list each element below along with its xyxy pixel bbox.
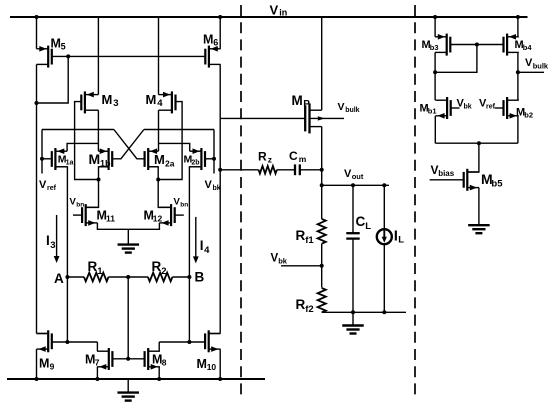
wire R2 to node B — [172, 276, 189, 278]
junction dot A-bus at gate line — [65, 340, 69, 344]
wire M10 source to rail — [219, 349, 221, 379]
current source IL — [377, 229, 392, 244]
wire MP source to rail — [321, 17, 323, 110]
wire M1a gate lead — [42, 158, 52, 160]
wire bias center rail — [435, 142, 518, 144]
junction dot Cm at MP drain — [320, 168, 324, 172]
ground symbol bottom center — [117, 379, 139, 401]
junction dot Vout corner — [320, 183, 324, 187]
transistor Mb2 — [504, 97, 519, 119]
wire M11 source to ground — [97, 223, 128, 229]
wire Mb2 source down — [517, 116, 519, 143]
transistor M2a — [145, 148, 159, 170]
wire Mb3 source to rail — [434, 17, 436, 37]
wire M11 gate lead — [73, 214, 82, 216]
junction dot node A — [65, 275, 69, 279]
label MP — [292, 93, 311, 110]
wire M1a drain down A-bus — [55, 167, 67, 342]
svg-text:7: 7 — [95, 358, 100, 368]
transistor M10 — [205, 330, 220, 352]
transistor MP — [305, 103, 322, 133]
wire M6 drain down bus — [219, 64, 221, 333]
wire Mb3 drain down — [434, 52, 436, 100]
junction dot M7 source rail — [95, 377, 99, 381]
wire cross-couple right horizontal — [144, 129, 214, 131]
label Rf1 — [296, 228, 315, 246]
resistor R1 — [84, 273, 109, 282]
transistor M9 — [37, 330, 52, 352]
wire M4 source to rail — [158, 17, 160, 95]
svg-text:ref: ref — [486, 104, 496, 111]
junction dot Vref gate — [40, 157, 44, 161]
svg-text:R: R — [152, 259, 162, 274]
label Rz — [258, 150, 272, 165]
svg-text:b2: b2 — [524, 111, 533, 120]
label Vref — [39, 179, 57, 192]
junction dot IL top — [382, 183, 386, 187]
svg-text:out: out — [352, 172, 364, 181]
wire M7 drain up — [96, 342, 98, 351]
wire M7-M8 gate line — [112, 358, 144, 360]
svg-text:L: L — [365, 221, 371, 232]
junction dot Mb3 at rail — [433, 15, 437, 19]
capacitor CL — [346, 233, 359, 238]
label M2a — [154, 152, 175, 168]
svg-text:bn: bn — [180, 202, 188, 209]
label CL — [356, 214, 372, 232]
transistor M5 — [37, 46, 52, 68]
junction dot IL bottom — [382, 310, 386, 314]
label Cm — [289, 149, 307, 164]
label Mb2 — [516, 107, 533, 120]
svg-text:f2: f2 — [305, 304, 313, 315]
wire M7 source to rail — [96, 367, 98, 379]
bulk lead of MP with arrow — [310, 116, 345, 120]
label Vbias — [431, 163, 455, 178]
junction dot CL bottom — [351, 310, 355, 314]
wire M9 drain lead — [37, 333, 49, 335]
label M10 — [197, 357, 217, 372]
svg-text:V: V — [39, 179, 47, 191]
wire M2a drain down — [148, 167, 171, 208]
label node A — [54, 271, 64, 286]
svg-text:I: I — [46, 233, 50, 248]
dashed boundary line right — [414, 5, 416, 397]
transistor M2b — [190, 148, 205, 170]
junction dot Vbk gate — [212, 157, 216, 161]
label Vout — [344, 168, 364, 181]
power rail Vin — [10, 16, 528, 18]
svg-text:8: 8 — [162, 358, 167, 368]
wire MP drain down — [321, 127, 323, 186]
wire M1a source up — [67, 143, 98, 151]
svg-text:M: M — [146, 92, 157, 107]
wire M12 source to ground — [128, 223, 159, 229]
svg-text:C: C — [356, 214, 366, 229]
wire M2b gate lead — [205, 158, 214, 160]
wire Rf1 to Rf2 — [321, 244, 323, 288]
label Vbn right — [174, 197, 189, 209]
label Mb3 — [422, 39, 439, 52]
transistor M3 — [81, 91, 98, 113]
wire Mb3 diode connection — [435, 45, 477, 73]
label Mb4 — [515, 39, 533, 52]
svg-text:C: C — [289, 149, 298, 163]
svg-text:M: M — [39, 357, 49, 371]
wire M1b drain down — [86, 167, 109, 208]
wire Mb1 gate lead — [451, 107, 460, 109]
junction dot right drain rail — [156, 178, 160, 182]
wire Mb4 source to rail — [517, 17, 519, 37]
svg-text:b4: b4 — [523, 43, 533, 52]
svg-text:M: M — [102, 92, 113, 107]
wire MP gate from M6 drain — [220, 117, 306, 119]
transistor M7 — [97, 348, 112, 370]
wire M3 gate down — [75, 102, 99, 180]
ground tail pair — [118, 229, 140, 252]
svg-text:bulk: bulk — [533, 62, 549, 71]
wire M5 source to rail — [36, 17, 38, 49]
wire center tap down — [127, 277, 129, 359]
label Vbk feedback — [271, 253, 288, 266]
wire Mb5 drain up — [467, 143, 479, 172]
svg-text:M: M — [89, 151, 101, 167]
wire M3 source to rail — [97, 17, 99, 95]
svg-text:4: 4 — [157, 98, 163, 109]
svg-text:b5: b5 — [491, 179, 503, 190]
junction dot B-bus at gate line — [187, 340, 191, 344]
wire M10 drain lead — [209, 333, 221, 335]
wire Mb2 gate lead — [495, 107, 504, 109]
wire Mb4 drain down — [517, 52, 519, 100]
svg-text:3: 3 — [50, 240, 55, 251]
wire cross-couple left horizontal — [42, 129, 114, 131]
wire M2b drain down B-bus — [189, 167, 201, 342]
svg-text:b1: b1 — [428, 107, 437, 116]
junction dot Rz at M6 bus — [218, 168, 222, 172]
svg-text:bulk: bulk — [345, 107, 359, 114]
transistor M6 — [205, 46, 220, 68]
dashed boundary line left — [240, 5, 242, 397]
junction dot M8 source rail — [157, 377, 161, 381]
wire Vout node line — [322, 184, 389, 186]
svg-text:2a: 2a — [165, 158, 175, 168]
wire Mb1 source down — [434, 116, 436, 143]
wire node A to R1 — [67, 276, 84, 278]
wire cross-couple diagonal left-to-right — [114, 130, 145, 159]
junction dot left drain rail — [97, 178, 101, 182]
svg-text:V: V — [205, 179, 213, 191]
label R2 — [152, 259, 167, 277]
capacitor Cm — [295, 164, 300, 175]
svg-text:ref: ref — [47, 185, 57, 192]
svg-text:M: M — [203, 33, 213, 47]
wire M8 source to rail — [158, 367, 160, 379]
resistor Rf1 — [318, 219, 326, 244]
label I3 — [46, 233, 56, 251]
transistor M1b — [98, 148, 112, 170]
ground symbol load — [342, 312, 364, 333]
svg-text:R: R — [258, 150, 267, 164]
label Mb1 — [420, 103, 437, 116]
svg-text:f1: f1 — [305, 235, 314, 246]
wire M5 drain down bus — [36, 64, 38, 333]
resistor Rz — [259, 166, 277, 174]
label M12 — [144, 209, 163, 224]
label M1b — [89, 151, 112, 168]
label Vbulk right — [525, 57, 549, 71]
transistor M1a — [52, 148, 67, 170]
label IL — [394, 228, 404, 246]
wire CL bottom — [352, 239, 354, 313]
label Vbulk at MP — [338, 101, 360, 114]
svg-text:bk: bk — [213, 185, 221, 192]
svg-text:in: in — [279, 8, 287, 18]
label M9 — [39, 357, 55, 372]
svg-text:6: 6 — [213, 38, 218, 48]
junction dot center gate line — [126, 357, 130, 361]
junction dot node B — [187, 275, 191, 279]
junction dot M5 drain bus — [35, 101, 39, 105]
junction dot M10 source rail — [218, 377, 222, 381]
wire M12 gate lead — [175, 214, 184, 216]
label M2b — [184, 154, 200, 167]
svg-text:5: 5 — [61, 42, 66, 52]
svg-text:M: M — [292, 93, 303, 108]
label M6 — [203, 33, 218, 48]
svg-text:bn: bn — [76, 202, 84, 209]
wire Cm to MP drain — [300, 169, 322, 171]
label M7 — [85, 353, 100, 368]
label Mb5 — [481, 171, 503, 190]
wire CL top — [352, 185, 354, 233]
label Vin — [270, 3, 288, 18]
junction dot Mb3 diode tap — [475, 43, 479, 47]
svg-text:3: 3 — [113, 98, 118, 109]
wire M4 gate down — [158, 102, 182, 180]
junction dot gate line diode tap — [66, 54, 70, 58]
wire Rz to Cm — [277, 169, 295, 171]
label Vref right block — [479, 98, 496, 111]
label M5 — [51, 37, 66, 52]
wire IL top — [383, 185, 385, 229]
label M3 — [102, 92, 119, 109]
label M8 — [152, 353, 167, 368]
ground rail bottom — [7, 378, 265, 380]
svg-text:bk: bk — [464, 104, 472, 111]
wire Rz input — [220, 169, 258, 171]
wire Mb5 source to ground — [478, 188, 480, 226]
junction dot Mb4 at rail — [516, 15, 520, 19]
label M1a — [58, 154, 74, 167]
svg-text:V: V — [270, 3, 279, 18]
svg-text:b3: b3 — [430, 43, 439, 52]
svg-text:B: B — [195, 270, 205, 285]
svg-text:z: z — [268, 155, 272, 165]
wire Vbk feedback stub — [281, 265, 322, 267]
label Rf2 — [296, 297, 314, 315]
wire Vbulk output line — [518, 71, 544, 73]
transistor M12 — [159, 204, 174, 226]
junction dot center tap — [126, 275, 130, 279]
wire gate line M5-M6 — [52, 55, 205, 57]
ground symbol bias — [468, 225, 490, 233]
label Vbk left block — [205, 179, 221, 192]
junction dot Mb3 drain node — [433, 70, 437, 74]
junction dot bias center — [477, 141, 481, 145]
current arrow I3 — [54, 215, 60, 263]
svg-text:1a: 1a — [66, 159, 74, 166]
junction dot M6 source at rail — [218, 15, 222, 19]
resistor Rf2 — [318, 288, 326, 312]
wire load bottom line — [322, 311, 406, 313]
transistor Mb5 — [464, 169, 479, 191]
wire IL bottom — [383, 245, 385, 313]
resistor R2 — [148, 273, 173, 282]
svg-text:M: M — [51, 37, 61, 51]
junction dot Vbk tap — [320, 264, 324, 268]
wire M8-M10 gate line — [159, 341, 205, 343]
transistor M11 — [82, 204, 97, 226]
svg-text:R: R — [296, 228, 306, 243]
svg-text:4: 4 — [204, 245, 210, 256]
svg-text:1: 1 — [97, 266, 103, 277]
svg-text:bias: bias — [438, 169, 455, 178]
wire cross-couple diagonal right-to-left — [112, 130, 144, 159]
wire R1 to center — [109, 276, 148, 278]
svg-text:12: 12 — [153, 214, 163, 224]
svg-text:9: 9 — [50, 362, 55, 372]
label R1 — [88, 259, 104, 277]
node Vbk stub — [213, 130, 215, 174]
wire M9 source to rail — [36, 349, 38, 379]
label Vbn left — [70, 197, 85, 209]
svg-text:A: A — [54, 271, 64, 286]
wire Mb5 gate lead — [430, 179, 464, 181]
junction dot M5 source at rail — [35, 15, 39, 19]
svg-text:V: V — [338, 101, 345, 113]
node Vref stub — [41, 130, 43, 174]
label M11 — [97, 209, 116, 224]
svg-text:11: 11 — [106, 214, 115, 224]
svg-text:2b: 2b — [191, 159, 199, 166]
label I4 — [200, 238, 210, 256]
wire Mb3-Mb4 gate line — [450, 44, 503, 46]
svg-text:M: M — [154, 152, 165, 167]
junction dot Vbulk node — [516, 70, 520, 74]
transistor Mb1 — [435, 97, 450, 119]
transistor M8 — [145, 348, 160, 370]
transistor Mb3 — [435, 34, 450, 56]
transistor Mb4 — [504, 34, 519, 56]
svg-text:10: 10 — [207, 362, 217, 372]
svg-text:M: M — [197, 357, 207, 371]
svg-text:R: R — [88, 259, 98, 274]
wire M3 drain down — [97, 110, 99, 151]
svg-text:bk: bk — [278, 257, 288, 266]
svg-text:L: L — [398, 234, 404, 245]
wire Rf1 top — [321, 185, 323, 219]
svg-text:2: 2 — [161, 266, 166, 277]
wire M4 drain down — [158, 110, 160, 151]
label node B — [195, 270, 205, 285]
label Vbk right block — [457, 98, 472, 111]
wire M2b source up — [159, 143, 190, 151]
wire M5 diode connection — [37, 56, 69, 103]
wire M8 drain up — [158, 342, 160, 351]
wire M9-M7 gate line — [52, 341, 98, 343]
svg-text:m: m — [299, 154, 307, 164]
svg-text:P: P — [303, 99, 310, 110]
svg-text:I: I — [200, 238, 204, 253]
svg-text:R: R — [296, 297, 306, 312]
current arrow I4 — [193, 217, 199, 264]
transistor M4 — [159, 91, 176, 113]
wire M6 source to rail — [219, 17, 221, 49]
junction dot CL top — [351, 183, 355, 187]
label M4 — [146, 92, 164, 109]
junction dot M9 source rail — [35, 377, 39, 381]
